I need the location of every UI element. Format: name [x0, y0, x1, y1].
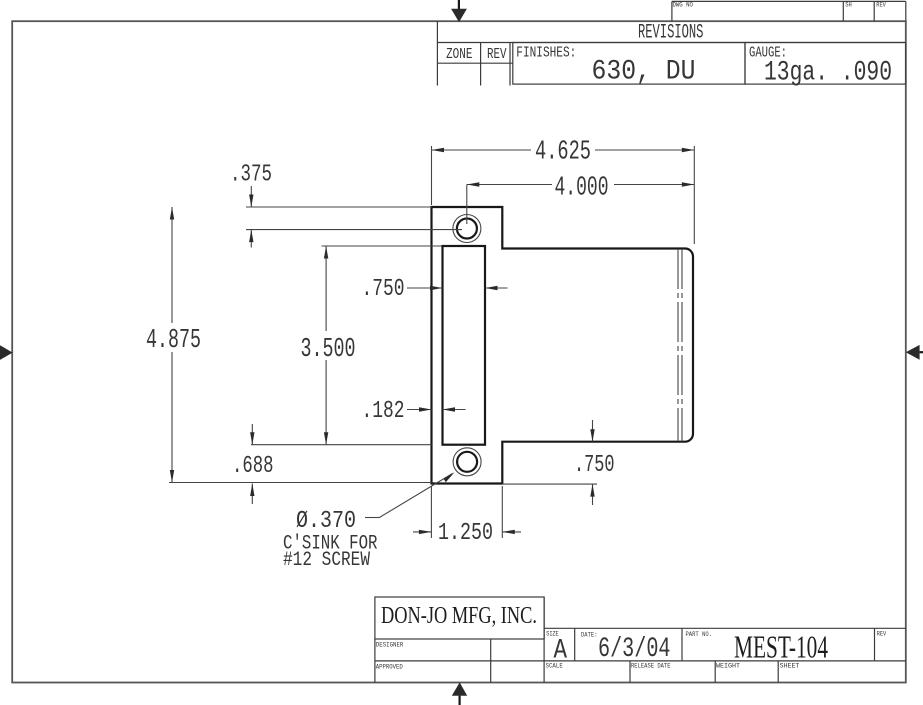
svg-text:REV: REV: [487, 46, 507, 63]
gauge box: [745, 43, 906, 89]
svg-text:MEST-104: MEST-104: [734, 628, 828, 664]
svg-text:4.625: 4.625: [535, 138, 591, 168]
svg-text:ZONE: ZONE: [446, 46, 472, 63]
dim .750 cutout: [362, 276, 508, 303]
part outline (strike plate): [432, 207, 694, 484]
svg-text:630, DU: 630, DU: [592, 57, 696, 88]
svg-text:.688: .688: [232, 453, 274, 480]
svg-text:REV: REV: [876, 2, 886, 9]
dim 4.625: [432, 138, 695, 245]
svg-text:DON-JO MFG, INC.: DON-JO MFG, INC.: [381, 603, 537, 629]
svg-text:DATE:: DATE:: [581, 631, 598, 638]
dim 4.000: [467, 174, 695, 225]
svg-text:FINISHES:: FINISHES:: [516, 44, 576, 61]
dim .182: [362, 398, 466, 425]
svg-text:DWG NO: DWG NO: [673, 2, 693, 9]
dim .750 right: [502, 420, 614, 505]
svg-text:6/3/04: 6/3/04: [598, 634, 671, 665]
svg-text:PART NO.: PART NO.: [686, 631, 713, 638]
svg-text:REV: REV: [877, 630, 887, 637]
svg-text:.750: .750: [574, 452, 615, 479]
title block: company box: [375, 597, 544, 639]
svg-text:3.500: 3.500: [301, 335, 356, 365]
dim 1.250: [413, 486, 521, 547]
svg-text:.750: .750: [362, 276, 405, 303]
svg-text:1.250: 1.250: [438, 520, 493, 547]
dim .688: [232, 424, 432, 504]
svg-text:SCALE: SCALE: [546, 663, 563, 670]
top screw hole: [453, 215, 481, 243]
title block: size/date/part/rev row: [544, 597, 906, 683]
title block: designer / approved rows: [375, 639, 906, 683]
left centering mark: [0, 345, 13, 360]
svg-text:#12 SCREW: #12 SCREW: [283, 549, 370, 572]
dim .375: [230, 161, 462, 247]
bottom centering mark: [452, 682, 467, 705]
svg-text:.182: .182: [362, 398, 405, 425]
top centering mark: [451, 0, 467, 22]
svg-text:4.875: 4.875: [146, 326, 201, 356]
right centering mark: [906, 345, 923, 360]
svg-text:SH: SH: [845, 2, 852, 9]
dim 3.500: [301, 246, 442, 445]
leader and note for countersink: [283, 472, 455, 572]
svg-text:SHEET: SHEET: [780, 663, 800, 670]
svg-text:DESIGNER: DESIGNER: [376, 641, 404, 648]
svg-text:13ga. .090: 13ga. .090: [764, 58, 892, 89]
latch cutout: [443, 246, 486, 445]
finishes box: [513, 43, 745, 88]
svg-text:.375: .375: [230, 161, 272, 188]
svg-text:APPROVED: APPROVED: [376, 664, 403, 671]
svg-text:4.000: 4.000: [555, 174, 609, 204]
dim 4.875: [146, 207, 432, 483]
bottom screw hole: [453, 448, 481, 476]
svg-text:REVISIONS: REVISIONS: [638, 22, 703, 45]
svg-text:RELEASE DATE: RELEASE DATE: [631, 663, 671, 670]
revisions table: [437, 21, 905, 85]
svg-text:Ø.370: Ø.370: [296, 508, 356, 535]
bend centerlines: [678, 249, 682, 442]
svg-text:WEIGHT: WEIGHT: [716, 663, 740, 670]
top strip partial header: [672, 1, 906, 21]
title block: scale/release/weight/sheet row: [546, 661, 800, 683]
